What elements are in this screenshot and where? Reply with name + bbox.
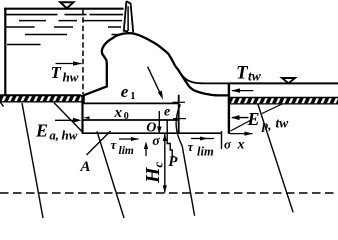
svg-text:hw: hw — [63, 70, 79, 85]
headwater surface line — [4, 8, 124, 10]
svg-text:1: 1 — [130, 91, 135, 102]
right tau_lim arrow — [191, 138, 214, 140]
foundation bottom line h3 — [82, 132, 222, 134]
upstream cutoff wall — [81, 96, 83, 134]
soil slip line 1 — [22, 103, 43, 218]
water dashes row 4 — [5, 26, 121, 28]
water line 2 — [6, 14, 123, 16]
dam body outline — [81, 33, 229, 96]
svg-text:0: 0 — [124, 111, 129, 122]
svg-text:σ: σ — [224, 137, 232, 152]
upstream ground hatch band — [0, 96, 85, 101]
svg-text:e: e — [164, 105, 170, 120]
svg-text:tw: tw — [248, 69, 262, 84]
x axis arrow at wall foot — [230, 133, 253, 135]
svg-text:x: x — [237, 138, 245, 153]
small tick crossing toe vertical at h2 level — [173, 118, 186, 120]
soil stub at left edge — [0, 99, 4, 107]
foundation line h2 (dimension line) — [82, 119, 179, 121]
small tick crossing toe vertical at h1 level — [173, 101, 186, 103]
sigma axis with down arrow at O — [158, 111, 160, 130]
central slip line — [176, 105, 194, 216]
downstream ground hatch band — [229, 98, 338, 104]
dashed vertical headwater depth line — [82, 9, 84, 94]
svg-text:e: e — [121, 82, 129, 101]
svg-text:T: T — [51, 63, 62, 82]
water dashes row 6 — [7, 44, 41, 46]
resultant arrow to base — [148, 67, 162, 97]
left tau_lim arrow — [119, 138, 139, 140]
water dashes row 3 — [19, 20, 122, 22]
pressure diagram P staircase — [167, 121, 174, 157]
T_hw arrow — [56, 63, 82, 65]
svg-text:hw: hw — [62, 128, 78, 143]
svg-text:P: P — [168, 154, 178, 170]
label H_c rotated — [142, 162, 166, 185]
foundation line h1 — [82, 102, 179, 104]
svg-text:H: H — [142, 166, 164, 184]
svg-text:E: E — [35, 121, 48, 141]
leader from A to base — [87, 131, 111, 155]
leader from wall foot to E_p,tw — [231, 120, 252, 131]
soil slip line 2 — [97, 131, 124, 218]
water dashes row 5 — [25, 34, 121, 36]
svg-text:σ: σ — [152, 134, 160, 149]
bottom dashed boundary line — [0, 192, 338, 194]
tailwater flow arrow — [232, 90, 253, 92]
dam toe vertical edge — [178, 95, 180, 134]
E_a,hw arrow — [55, 119, 76, 121]
tailwater level symbol (nabla) — [282, 78, 295, 83]
gate inner line — [127, 6, 129, 31]
gate on crest — [124, 1, 133, 32]
leader from E_p,tw to bed — [262, 104, 282, 114]
x0 dimension arrowhead at wall — [84, 116, 90, 119]
soil diagonal to upstream wall foot — [54, 103, 82, 132]
svg-text:c: c — [150, 162, 165, 168]
svg-text:x: x — [114, 105, 123, 121]
reservoir left border wall — [4, 8, 6, 96]
svg-text:a,: a, — [50, 129, 59, 143]
headwater level symbol (nabla) — [60, 2, 73, 8]
svg-text:A: A — [80, 159, 91, 175]
svg-text:lim: lim — [197, 145, 214, 159]
small up arrow after tau_lim left — [145, 145, 147, 156]
svg-text:E: E — [247, 109, 260, 129]
right soil slip line — [258, 105, 293, 213]
E_p,tw arrow — [232, 117, 249, 119]
downstream cutoff wall — [228, 83, 230, 134]
svg-text:lim: lim — [119, 145, 134, 157]
H_c dimension line — [164, 134, 166, 193]
tick at end of h3 — [221, 131, 223, 149]
tailwater surface line — [228, 82, 338, 84]
spillway water surface to tailwater — [180, 72, 228, 83]
svg-text:tw: tw — [276, 116, 290, 131]
